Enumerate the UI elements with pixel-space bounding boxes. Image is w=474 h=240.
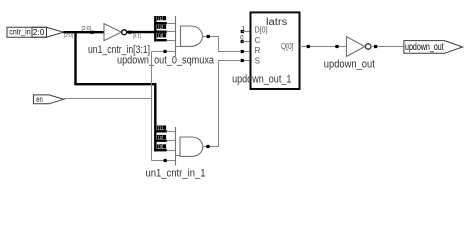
constant 0 on C pin: [240, 35, 250, 43]
wire bus vertical drop: [74, 32, 76, 84]
node Q pin dot: [307, 45, 310, 48]
node AND1 output dot: [207, 35, 210, 38]
svg-text:cntr_in: cntr_in: [9, 27, 31, 37]
inverter updown_out: [347, 37, 371, 57]
svg-text:latrs: latrs: [266, 17, 287, 28]
svg-text:[2:0]: [2:0]: [64, 33, 73, 39]
rip tag [2] upper: [157, 25, 166, 30]
AND gate updown_out_0_sqmuxa body: [181, 26, 203, 46]
wire bus horizontal bottom: [74, 83, 155, 85]
rip tag [1] upper: [157, 16, 166, 21]
svg-text:updown_out_1: updown_out_1: [232, 74, 291, 86]
svg-text:[3:1]: [3:1]: [133, 34, 141, 40]
inverter un1_cntr_in[3:1]: [104, 24, 127, 41]
svg-text:[2]: [2]: [158, 25, 163, 30]
svg-text:[1]: [1]: [158, 125, 163, 130]
wire bus column to lower rips: [154, 83, 156, 152]
node R pin dot: [241, 50, 244, 53]
node inverter output dot: [128, 31, 131, 34]
AND gate updown_out_0_sqmuxa pin4 stub: [176, 46, 181, 48]
wire AND1 out to R: [203, 37, 251, 52]
rip tag [2] lower: [157, 135, 166, 140]
svg-text:Q[0]: Q[0]: [281, 42, 294, 51]
node AND2 output dot: [206, 145, 209, 148]
wire en to AND2: [152, 160, 176, 162]
AND gate un1_cntr_in_1 body: [180, 137, 203, 156]
AND gate updown_out_0_sqmuxa input extender: [175, 16, 177, 56]
node inverter2 input dot: [335, 45, 338, 48]
wire en trunk vertical: [151, 52, 153, 161]
constant 1 on D pin: [241, 26, 251, 33]
bus rip column upper: [154, 16, 156, 42]
node en AND1 junction dot: [163, 50, 166, 53]
svg-text:D[0]: D[0]: [255, 26, 268, 35]
svg-text:[1]: [1]: [158, 16, 163, 21]
wire en horizontal: [64, 98, 152, 100]
node S pin dot: [241, 59, 244, 62]
wire Q out to inverter: [300, 46, 347, 48]
rip tag [3] lower: [157, 144, 166, 149]
wire lower rip2 bar to AND2: [155, 139, 167, 141]
wire inverter2 out to output port: [370, 46, 404, 48]
svg-text:S: S: [255, 57, 260, 66]
wire rip2 bar to AND1: [155, 31, 167, 33]
svg-text:updown_out: updown_out: [324, 59, 375, 71]
node inverter input pin dot: [91, 31, 94, 34]
svg-text:[3]: [3]: [158, 33, 163, 38]
input port cntr_in[2:0]: [7, 27, 63, 38]
wire AND2 out to S: [203, 61, 251, 147]
wire bus inverter out to rips: [127, 31, 156, 33]
svg-text:un1_cntr_in_1: un1_cntr_in_1: [146, 168, 206, 180]
rip tag [1] lower: [157, 125, 166, 130]
wire en to AND1: [152, 51, 176, 53]
wire bus cntr_in to inverter: [63, 31, 104, 33]
svg-text:[2]: [2]: [158, 135, 163, 140]
svg-text:2:0: 2:0: [33, 27, 45, 37]
svg-text:[2:0]: [2:0]: [82, 26, 92, 32]
AND gate un1_cntr_in_1 pin4 stub: [176, 155, 181, 157]
svg-text:updown_out_0_sqmuxa: updown_out_0_sqmuxa: [117, 54, 215, 66]
node en AND2 junction dot: [164, 159, 167, 162]
svg-text:en: en: [36, 95, 43, 104]
input port en: [33, 95, 63, 104]
AND gate un1_cntr_in_1 input extender: [175, 127, 177, 166]
svg-text:updown_out: updown_out: [405, 41, 444, 53]
svg-text:R: R: [255, 46, 261, 55]
wire rip1 bar to AND1: [155, 22, 167, 24]
wire lower rip3 bar to AND2: [155, 149, 167, 151]
svg-text:[3]: [3]: [158, 144, 163, 149]
output port updown_out: [404, 41, 463, 54]
rip tag [3] upper: [157, 33, 166, 38]
latch latrs updown_out_1: [251, 12, 300, 89]
svg-text:C: C: [255, 36, 261, 45]
wire lower rip1 bar to AND2: [155, 130, 167, 132]
wire rip3 bar to AND1: [155, 39, 167, 41]
node inverter2 output dot: [374, 45, 377, 48]
